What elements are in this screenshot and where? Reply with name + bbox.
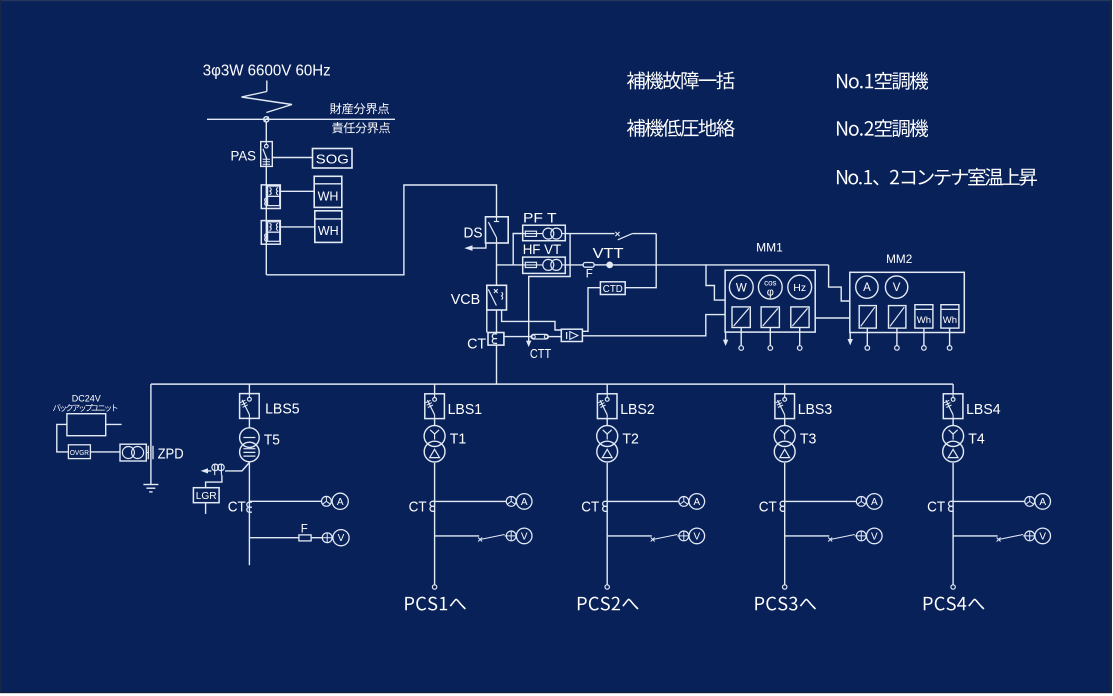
wire OVGR to ZPD [90, 451, 120, 453]
transformer CT5 label [228, 498, 246, 515]
transducer V [889, 306, 906, 329]
svg-text:DS: DS [464, 225, 483, 242]
svg-text:V: V [338, 533, 345, 544]
transformer T2 label [622, 431, 639, 448]
wire MM1 ground arrow [723, 332, 728, 346]
relay I> overcurrent relay [561, 329, 582, 341]
wire incoming service drop [266, 81, 268, 92]
wire T3 ammeter line [785, 500, 857, 502]
wire VCB to CT [496, 310, 498, 333]
terminal T4 ammeter test plug [1025, 497, 1035, 507]
ground earth symbol [143, 485, 158, 492]
terminal PCS2 feeder end [605, 585, 609, 589]
wire MOF1 to WH1 [280, 190, 314, 192]
meter W wattmeter [729, 275, 753, 299]
wire VCB to OC relay [502, 310, 562, 330]
svg-text:WH: WH [318, 224, 339, 238]
breaker VCB label [451, 291, 481, 308]
wire bus to LBS5 [248, 384, 250, 394]
svg-text:PF T: PF T [523, 211, 557, 226]
wire ZCT output arrow [201, 468, 212, 473]
wire VT secondary [565, 264, 583, 266]
svg-text:3φ3W 6600V 60Hz: 3φ3W 6600V 60Hz [203, 63, 331, 80]
svg-text:LBS2: LBS2 [620, 401, 655, 418]
switch DS disconnector [486, 217, 509, 243]
switch PAS [261, 142, 273, 167]
terminal MM1 W output [739, 328, 744, 351]
svg-text:V: V [871, 531, 878, 542]
switch LBS1 load break switch [425, 394, 445, 419]
svg-text:PAS: PAS [231, 148, 257, 164]
svg-text:A: A [863, 282, 871, 294]
svg-text:A: A [337, 497, 344, 508]
wire bus to LBS3 [784, 384, 786, 394]
wire backup unit stub [106, 423, 122, 425]
terminal T4 voltmeter test plug [1025, 531, 1035, 541]
wire T2 feeder down [606, 463, 608, 585]
wire OC relay to MM1 [582, 315, 725, 336]
relay SOG box [313, 149, 353, 169]
transducer W [732, 307, 750, 328]
fuse PF T label [523, 211, 557, 226]
transducer Hz [791, 307, 809, 328]
switch VT test switch [615, 232, 632, 240]
wire demarcation line [207, 118, 395, 120]
switch DS label [464, 225, 483, 242]
wire VT line into MM2 [829, 265, 850, 301]
wire T1 voltmeter line [435, 535, 480, 537]
switch LBS2 load break switch [597, 394, 617, 419]
transformer CT3 label [759, 498, 777, 515]
terminal MM2 A output [865, 328, 870, 350]
svg-text:Wh: Wh [943, 315, 957, 326]
wire T2 ammeter line [607, 500, 679, 502]
svg-text:V: V [521, 531, 528, 542]
wire T5 feeder down [248, 462, 250, 566]
wire PT secondary to test switch [565, 233, 614, 235]
wire T4 feeder down [952, 463, 954, 585]
transformer T5 label [264, 432, 280, 449]
switch T3 voltmeter switch [828, 535, 856, 542]
node VTT junction dot [606, 262, 613, 269]
terminal T3 ammeter test plug [856, 497, 866, 507]
wire VT line into MM1 [706, 265, 725, 300]
alarm text No.1空調機 [837, 72, 928, 90]
meter T5 voltmeter V [333, 530, 349, 546]
wire LGR stub [205, 503, 207, 514]
fuse F on voltmeter line [299, 535, 322, 541]
svg-text:V: V [693, 531, 700, 542]
svg-text:CTT: CTT [530, 346, 551, 361]
node boundary point circle [264, 117, 269, 122]
wire bus to LBS2 [606, 384, 608, 394]
transformer CT4 label [927, 498, 945, 515]
transformer ZCT zero-phase CT [212, 464, 224, 475]
switch LBS3 load break switch [775, 394, 795, 419]
wire LBS5 to T5 [248, 418, 250, 428]
wire T2 voltmeter line [607, 535, 652, 537]
svg-text:CT: CT [759, 498, 777, 515]
svg-text:CT: CT [228, 498, 246, 515]
switch LBS4 load break switch [943, 394, 963, 419]
transformer T2 [597, 426, 618, 463]
wire jog to DS [266, 185, 496, 275]
transformer CT label [467, 335, 486, 352]
transformer T1 [424, 426, 445, 463]
wire CT riser to bus [496, 345, 498, 384]
svg-text:WH: WH [318, 189, 339, 203]
wire VCB frame edge [486, 310, 488, 333]
terminal PCS1 feeder end [432, 585, 436, 589]
transformer HF VT label [523, 242, 562, 257]
transformer T4 label [968, 431, 985, 448]
node VTT label [593, 245, 624, 262]
meter WH2 watt-hour meter [315, 211, 342, 243]
wire LBS2 to T2 [606, 419, 608, 426]
fuse F label T5 [301, 523, 308, 535]
terminal MM2 V output [895, 328, 900, 350]
alarm text No.1、2コンテナ室温上昇 [837, 168, 1037, 186]
svg-text:A: A [521, 497, 528, 508]
svg-text:CT: CT [927, 498, 945, 515]
svg-text:VCB: VCB [451, 291, 481, 308]
wire T4 voltmeter line [953, 535, 998, 537]
svg-text:V: V [893, 282, 901, 294]
svg-text:W: W [736, 282, 747, 294]
wire LBS1 to T1 [434, 419, 436, 426]
transformer CT3 symbol [780, 501, 785, 511]
svg-text:LGR: LGR [196, 490, 217, 502]
svg-text:T3: T3 [800, 431, 817, 448]
meter WH1 watt-hour meter [314, 176, 342, 207]
svg-text:LBS4: LBS4 [966, 401, 1001, 418]
wire test switch to CTD riser [633, 233, 657, 235]
svg-text:LBS3: LBS3 [798, 401, 833, 418]
wire CTD to OC relay [582, 288, 600, 332]
transformer CT2 symbol [603, 501, 608, 511]
wire bus to LBS1 [434, 384, 436, 394]
transformer ZPD [120, 444, 153, 461]
wire PAS drop [265, 122, 267, 142]
wire T5 voltmeter line [249, 537, 299, 539]
switch T4 voltmeter switch [997, 535, 1025, 542]
svg-text:T5: T5 [264, 432, 280, 449]
svg-text:A: A [693, 497, 700, 508]
node responsibility demarcation point label 責任分界点 [332, 122, 390, 133]
panel MM2 box [850, 272, 965, 332]
svg-text:CTD: CTD [603, 283, 623, 295]
switch LBS1 label [448, 401, 483, 418]
value label F [586, 269, 593, 281]
node PCS2 destination label [578, 597, 639, 611]
svg-text:Wh: Wh [917, 315, 931, 326]
transformer CT1 symbol [430, 501, 435, 511]
transducer A [859, 306, 876, 329]
wire ZCT to LGR [206, 475, 222, 488]
terminal MM2 Wh1 output [922, 328, 927, 350]
terminal MM1 cos output [768, 328, 773, 351]
switch T1 voltmeter switch [478, 535, 506, 542]
svg-text:F: F [301, 523, 308, 535]
switch LBS2 label [620, 401, 655, 418]
transformer T3 label [800, 431, 817, 448]
terminal MM1 Hz output [797, 328, 802, 351]
breaker VCB vacuum circuit breaker [487, 285, 507, 310]
terminal T2 ammeter test plug [679, 497, 689, 507]
svg-text:T4: T4 [968, 431, 985, 448]
svg-text:OVGR: OVGR [70, 448, 89, 457]
meter T3 ammeter A [867, 494, 883, 510]
terminal MM2 Wh2 output [947, 328, 952, 350]
terminal T5 voltmeter test plug [322, 533, 332, 543]
meter T4 voltmeter V [1035, 528, 1051, 544]
incoming line zigzag symbol [242, 92, 293, 113]
transformer T5 [240, 428, 260, 462]
meter A ammeter [856, 276, 878, 298]
wire backup unit to OVGR [57, 424, 69, 452]
svg-text:MM2: MM2 [886, 254, 912, 266]
node MM2 label [886, 254, 912, 266]
svg-text:ZPD: ZPD [158, 445, 184, 462]
wire MM2 ground arrow [848, 333, 853, 346]
transformer T4 [943, 426, 964, 463]
fuse HF and voltage transformer VT [523, 257, 566, 273]
wire T1 feeder down [434, 463, 436, 585]
switch LBS4 label [966, 401, 1001, 418]
svg-text:φ: φ [767, 287, 774, 299]
meter V voltmeter [885, 276, 907, 298]
wire VTT to metering panels [613, 264, 829, 266]
fuse PF and transformer T [523, 225, 566, 241]
svg-text:A: A [1039, 497, 1046, 508]
wire PAS to SOG [272, 157, 312, 159]
wire DS drawout arrow [464, 243, 486, 251]
terminal PCS3 feeder end [783, 585, 787, 589]
terminal T1 voltmeter test plug [506, 531, 516, 541]
meter T2 voltmeter V [689, 528, 705, 544]
meter T4 ammeter A [1035, 494, 1051, 510]
wire LBS4 to T4 [952, 419, 954, 426]
battery DC24V backup unit box [67, 414, 106, 436]
meter T3 voltmeter V [867, 528, 883, 544]
svg-text:SOG: SOG [316, 151, 349, 166]
node PCS4 destination label [924, 597, 985, 611]
alarm text 補機低圧地絡 [627, 119, 735, 137]
transformer T3 [774, 426, 795, 463]
wire main riser through MOFs [265, 166, 267, 274]
transformer CT4 symbol [949, 501, 954, 511]
svg-text:Hz: Hz [793, 282, 806, 294]
wire CTT to OC relay [548, 336, 561, 338]
terminal T1 ammeter test plug [506, 497, 516, 507]
terminal CTT label [530, 346, 551, 361]
wire bus to LBS4 [952, 384, 954, 394]
battery DC24V backup unit label [53, 394, 117, 412]
wire MM1 to MM2 [815, 317, 850, 319]
switch LBS3 label [798, 401, 833, 418]
value label 3-phase 3-wire 6600V 60Hz source rating [203, 63, 331, 80]
wire ZCT branch [225, 463, 249, 471]
svg-text:MM1: MM1 [756, 243, 783, 255]
transformer ZPD label [158, 445, 184, 462]
svg-text:CT: CT [409, 498, 427, 515]
node property demarcation point label 財産分界点 [330, 103, 389, 114]
terminal CTT test terminal [531, 334, 548, 339]
switch PAS label [231, 148, 257, 164]
transformer CT1 label [409, 498, 427, 515]
svg-text:DC24V: DC24V [72, 394, 101, 404]
node PCS3 destination label [755, 597, 816, 611]
meter T5 ammeter A [332, 493, 348, 509]
transformer MOF2 (VCT) [261, 221, 280, 245]
wire LBS3 to T3 [784, 419, 786, 426]
wire T4 ammeter line [953, 500, 1025, 502]
wire T1 ammeter line [435, 500, 507, 502]
svg-text:T2: T2 [622, 431, 639, 448]
terminal PCS4 feeder end [951, 585, 955, 589]
svg-text:HF VT: HF VT [523, 242, 562, 257]
panel MM1 box [725, 270, 815, 332]
wire bus to ZPD [150, 384, 152, 484]
meter T2 ammeter A [689, 494, 705, 510]
switch LBS5 load break switch [240, 394, 260, 419]
transformer MOF1 (VCT) [261, 185, 280, 209]
node MM1 label [756, 243, 783, 255]
svg-text:CT: CT [467, 335, 486, 352]
wire DS to VCB [496, 243, 498, 285]
wire main bus [151, 383, 953, 385]
wire CT to CTT [504, 336, 531, 338]
wire CTD riser [625, 234, 656, 288]
wire VT tap [497, 234, 523, 265]
transformer T1 label [450, 431, 467, 448]
relay LGR box [193, 488, 219, 503]
transformer CT2 label [581, 498, 599, 515]
relay CTD box [600, 282, 625, 295]
svg-text:LBS1: LBS1 [448, 401, 483, 418]
meter Wh1 watt-hour [915, 305, 933, 328]
switch LBS5 label [265, 401, 300, 418]
transformer CT5 symbol [247, 502, 252, 512]
svg-text:V: V [1039, 531, 1046, 542]
svg-text:T1: T1 [450, 431, 467, 448]
meter cos-phi power factor meter [758, 275, 782, 299]
fuse F on VT secondary [583, 263, 606, 268]
alarm text 補機故障一括 [627, 71, 735, 89]
terminal T3 voltmeter test plug [856, 531, 866, 541]
relay OVGR box [68, 445, 90, 459]
terminal T5 ammeter test plug [322, 496, 332, 506]
meter T1 voltmeter V [516, 528, 532, 544]
transformer CT box [488, 333, 504, 346]
svg-text:F: F [586, 269, 593, 281]
svg-text:VTT: VTT [593, 245, 624, 262]
svg-text:LBS5: LBS5 [265, 401, 300, 418]
wire MOF2 to WH2 [280, 226, 315, 228]
wire T5 ammeter line [249, 500, 321, 502]
meter T1 ammeter A [516, 494, 532, 510]
transducer cos-phi [761, 307, 779, 328]
svg-text:CT: CT [581, 498, 599, 515]
meter Hz frequency meter [788, 275, 812, 299]
svg-text:A: A [871, 497, 878, 508]
wire T3 voltmeter line [785, 535, 830, 537]
terminal T2 voltmeter test plug [679, 531, 689, 541]
wire PT secondary down to CTT arrow [526, 234, 570, 347]
node PCS1 destination label [405, 597, 466, 611]
wire T3 feeder down [784, 463, 786, 585]
alarm text No.2空調機 [837, 119, 928, 137]
meter Wh2 watt-hour [941, 305, 959, 328]
switch T2 voltmeter switch [651, 535, 679, 542]
